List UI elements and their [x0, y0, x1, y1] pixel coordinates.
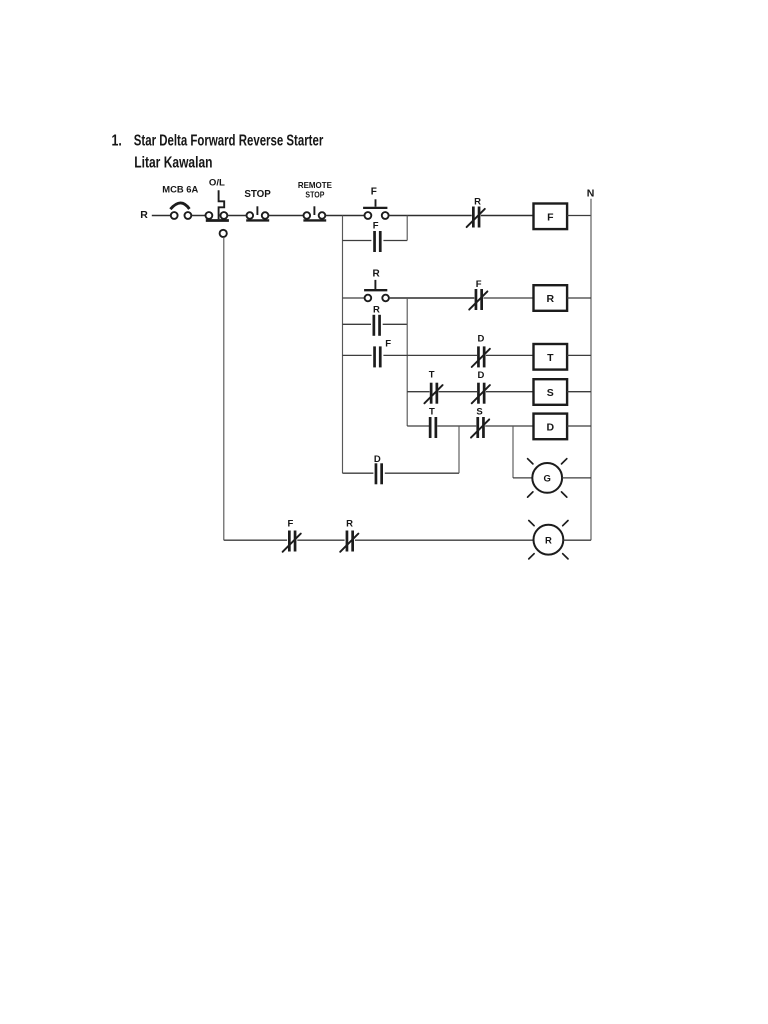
svg-text:T: T	[547, 352, 554, 364]
svg-text:D: D	[547, 421, 555, 433]
label O/L	[209, 178, 225, 189]
svg-text:N: N	[587, 188, 595, 200]
contact D NC rung3	[472, 346, 490, 367]
label F pushbutton	[371, 186, 377, 197]
pilot lamp G	[528, 459, 567, 497]
wire R lamp to N rail	[563, 539, 591, 541]
wire G lamp to N rail	[562, 477, 591, 479]
svg-text:R: R	[545, 535, 552, 546]
svg-text:F: F	[385, 338, 391, 349]
label T contact rung4	[429, 370, 435, 381]
wire S contact to coil D	[485, 425, 533, 427]
wire to G lamp	[513, 477, 532, 479]
contact F NO rung3	[375, 346, 381, 367]
wire F to R contact bottom	[297, 539, 344, 541]
contact T NC rung4	[424, 383, 442, 404]
svg-text:D: D	[477, 370, 484, 381]
wire junction to D contact rung3	[407, 354, 477, 356]
wire junction to T contact rung4	[407, 391, 429, 393]
wire coil F to N rail	[567, 215, 591, 217]
svg-text:O/L: O/L	[209, 178, 225, 189]
contact T NO rung5	[430, 417, 436, 438]
contact F NC rung2	[469, 289, 487, 310]
coil T	[534, 344, 568, 370]
wire R pushbutton to F contact	[389, 297, 474, 299]
contact D NC rung4	[472, 383, 490, 404]
svg-text:STOP: STOP	[305, 190, 324, 199]
svg-text:D: D	[374, 454, 381, 465]
label D contact rung4	[477, 370, 484, 381]
label R contact rung1	[474, 197, 481, 208]
svg-text:T: T	[429, 406, 435, 417]
title line 2: Litar Kawalan	[134, 154, 212, 171]
right rail N	[590, 199, 592, 541]
svg-text:Litar Kawalan: Litar Kawalan	[134, 154, 212, 171]
pushbutton R NO	[364, 280, 389, 301]
wire T contact to D contact rung4	[439, 391, 478, 393]
wire rail to F contact rung3	[343, 354, 372, 356]
node R supply label	[140, 209, 148, 221]
wire T contact to S contact rung5	[437, 425, 476, 427]
svg-text:R: R	[474, 197, 481, 208]
title line 1: 1. Star Delta Forward Reverse Starter	[112, 133, 324, 150]
svg-text:R: R	[373, 304, 380, 315]
wire junction to T contact rung5	[407, 425, 429, 427]
drop wire rung5 to G lamp	[512, 426, 514, 478]
wire D contact to coil S	[486, 391, 534, 393]
svg-text:Star Delta Forward Reverse Sta: Star Delta Forward Reverse Starter	[134, 133, 324, 150]
O/L lower terminal	[220, 230, 227, 237]
wire coil D to N rail	[567, 425, 591, 427]
wire F contact to junction	[383, 354, 407, 356]
label F holding	[373, 221, 379, 232]
label F contact rung2	[476, 279, 482, 290]
riser D branch to rung5	[458, 426, 460, 473]
wire holding R left	[343, 323, 372, 325]
wire R to MCB	[152, 215, 171, 217]
contact D NO branch	[376, 463, 382, 484]
pushbutton F NO	[363, 199, 389, 219]
label F contact rung3	[385, 338, 391, 349]
svg-text:F: F	[476, 279, 482, 290]
svg-text:STOP: STOP	[244, 189, 271, 200]
svg-text:T: T	[429, 370, 435, 381]
wire MCB to O/L	[191, 215, 205, 217]
svg-text:R: R	[547, 293, 555, 305]
label R pushbutton	[372, 269, 380, 280]
coil S	[534, 379, 568, 405]
svg-text:F: F	[547, 211, 554, 223]
wire rail to R pushbutton	[343, 297, 365, 299]
loop vertical rung1	[406, 216, 408, 241]
label R bottom	[346, 518, 353, 529]
contact R NC rung1	[467, 207, 485, 228]
wire F pushbutton to R contact	[389, 215, 472, 217]
svg-text:REMOTE: REMOTE	[298, 181, 333, 190]
REMOTE STOP pushbutton NC	[303, 206, 326, 220]
left rail vertical	[342, 216, 344, 474]
wire holding F right	[383, 240, 407, 242]
svg-text:1.: 1.	[112, 133, 122, 150]
svg-text:R: R	[140, 209, 148, 221]
wire D contact to coil T	[486, 354, 534, 356]
label N	[587, 188, 595, 200]
coil R	[534, 285, 568, 311]
svg-text:F: F	[287, 518, 293, 529]
label T contact rung5	[429, 406, 435, 417]
wire STOP to REMOTE STOP	[269, 215, 304, 217]
svg-text:R: R	[372, 269, 380, 280]
svg-text:G: G	[544, 474, 551, 485]
label R holding	[373, 304, 380, 315]
pilot lamp R	[529, 521, 568, 559]
coil F	[534, 204, 568, 230]
label S contact rung5	[476, 407, 482, 418]
wire coil R to N rail	[567, 297, 591, 299]
svg-text:S: S	[476, 407, 482, 418]
MCB 6A breaker	[170, 203, 191, 219]
wire D contact to riser	[385, 472, 459, 474]
wire O/L to STOP	[227, 215, 246, 217]
svg-text:R: R	[346, 518, 353, 529]
contact F NC bottom	[283, 531, 301, 552]
overload relay O/L contact	[206, 190, 229, 220]
label F bottom	[287, 518, 293, 529]
label MCB 6A	[162, 185, 198, 196]
wire R contact to R lamp	[355, 539, 534, 541]
contact R NC bottom	[340, 531, 358, 552]
label D contact rung3	[477, 334, 484, 345]
contact F holding NO	[375, 231, 381, 252]
wire coil S to N rail	[567, 391, 591, 393]
coil D	[534, 414, 568, 440]
label STOP	[244, 189, 271, 200]
svg-text:MCB 6A: MCB 6A	[162, 185, 198, 196]
label REMOTE STOP	[298, 181, 333, 199]
contact R holding NO	[374, 315, 380, 336]
wire to F contact bottom	[224, 539, 287, 541]
STOP pushbutton NC	[246, 206, 269, 220]
wire rail to D contact branch	[343, 472, 374, 474]
label D branch	[374, 454, 381, 465]
wire holding R right	[383, 323, 408, 325]
junction vertical rail	[406, 298, 408, 426]
svg-text:F: F	[371, 186, 377, 197]
wire holding F left	[343, 240, 372, 242]
wire F contact to coil R	[483, 297, 533, 299]
svg-text:F: F	[373, 221, 379, 232]
svg-text:S: S	[547, 387, 554, 399]
wire R contact to coil F	[481, 215, 534, 217]
contact S NC rung5	[471, 417, 489, 438]
left drop wire from O/L	[223, 237, 225, 540]
wire coil T to N rail	[567, 354, 591, 356]
svg-text:D: D	[477, 334, 484, 345]
wire REMOTE STOP to F pushbutton	[325, 215, 364, 217]
